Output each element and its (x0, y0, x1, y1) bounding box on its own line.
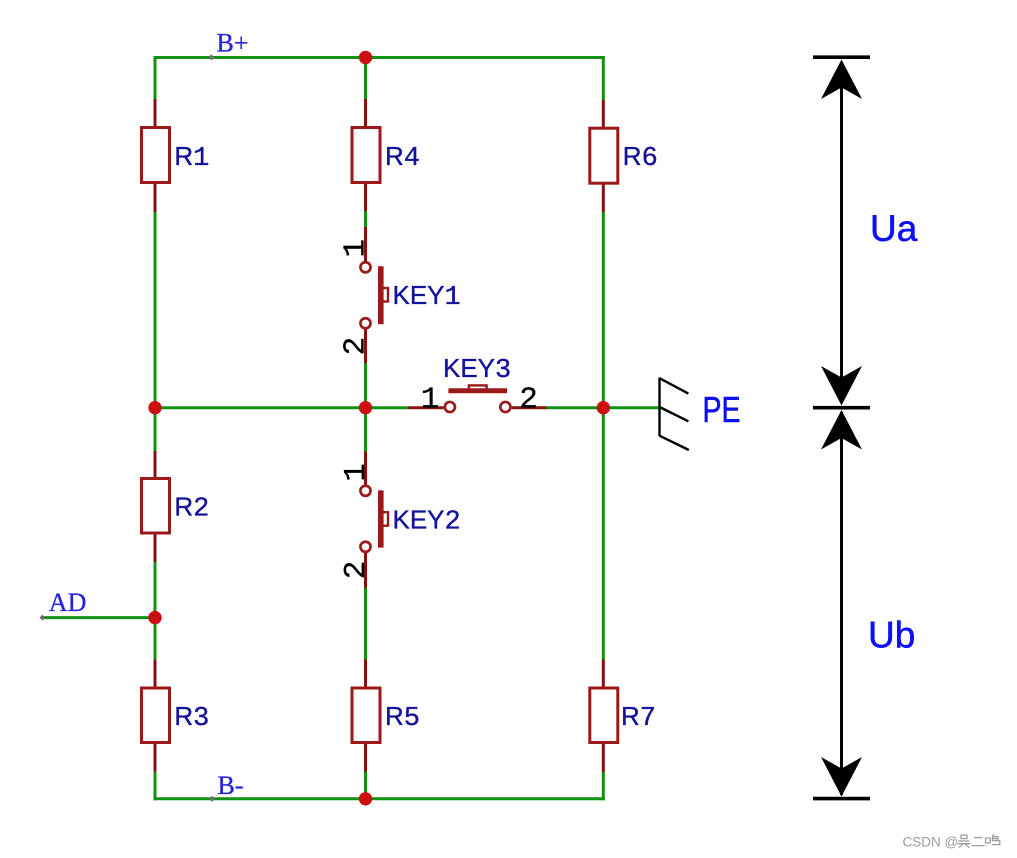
wire middle branch R4 to KEY1 (364, 211, 367, 228)
resistor R6 (590, 100, 618, 212)
net label AD anchor (40, 615, 46, 621)
svg-text:1: 1 (421, 383, 440, 418)
resistor R7 (590, 660, 618, 773)
wire PE stub (603, 406, 659, 409)
wire middle row KEY3 to right junction (547, 406, 604, 409)
svg-text:1: 1 (339, 463, 374, 482)
svg-text:CSDN @: CSDN @ (903, 835, 959, 850)
resistor R2 (142, 451, 170, 562)
svg-text:Ub: Ub (868, 614, 915, 655)
wire middle branch middle junction to KEY2 (364, 408, 367, 452)
wire right branch R7 to bottom (602, 772, 605, 801)
svg-text:PE: PE (703, 389, 741, 430)
wire middle branch KEY1 to middle junction (364, 363, 367, 408)
pushbutton KEY2 (360, 452, 388, 588)
wire left branch top (154, 56, 157, 100)
svg-text:AD: AD (49, 588, 87, 617)
resistor R1 (142, 99, 170, 212)
resistor R5 (352, 660, 380, 772)
svg-text:R7: R7 (621, 701, 656, 734)
svg-text:R1: R1 (174, 141, 209, 174)
wire left branch AD to R3 (154, 618, 157, 660)
pushbutton KEY1 (360, 227, 388, 363)
wire B- bottom horizontal (154, 797, 605, 800)
svg-text:B-: B- (218, 771, 244, 800)
wire left branch middle to R2 (154, 408, 157, 452)
net label B+ anchor (208, 54, 214, 60)
net label B- anchor (209, 796, 215, 802)
wire middle row left junction to KEY3 (366, 406, 409, 409)
svg-text:KEY2: KEY2 (393, 504, 461, 537)
pushbutton KEY3 (409, 385, 547, 412)
junction bottom at R5 (359, 792, 372, 805)
junction AD (148, 611, 161, 624)
svg-text:R4: R4 (385, 141, 420, 174)
svg-text:R2: R2 (174, 491, 209, 524)
wire left branch R2 to AD (154, 562, 157, 618)
resistor R4 (352, 99, 380, 211)
svg-text:2: 2 (339, 561, 374, 580)
svg-text:1: 1 (339, 239, 374, 258)
svg-text:KEY3: KEY3 (443, 353, 511, 386)
junction middle center (359, 401, 372, 414)
junction top at R4 (359, 51, 372, 64)
dimension arrow Ua (813, 57, 870, 405)
wire right branch top (602, 56, 605, 100)
svg-text:R5: R5 (385, 701, 420, 734)
wire middle branch top junction to R4 (364, 58, 367, 100)
svg-text:Ua: Ua (870, 208, 918, 249)
svg-text:B+: B+ (217, 28, 249, 57)
resistor R3 (142, 660, 170, 772)
junction middle left (148, 401, 161, 414)
dimension arrow Ub (813, 408, 870, 799)
wire B+ top horizontal (154, 56, 605, 59)
wire AD horizontal (43, 616, 156, 619)
wire middle branch R5 to bottom junction (364, 771, 367, 799)
svg-text:2: 2 (339, 337, 374, 356)
wire left branch R3 to bottom (154, 771, 157, 800)
junction middle right (597, 401, 610, 414)
wire left branch R1 to middle (154, 212, 157, 408)
wire middle branch KEY2 to R5 (364, 588, 367, 660)
svg-text:KEY1: KEY1 (393, 280, 461, 313)
svg-text:R6: R6 (623, 141, 658, 174)
svg-text:R3: R3 (174, 701, 209, 734)
wire right branch R6 to middle junction (602, 212, 605, 408)
wire middle row left segment (155, 406, 366, 409)
svg-text:2: 2 (519, 383, 538, 418)
wire right branch middle junction to R7 (602, 408, 605, 660)
ground PE symbol (660, 378, 689, 451)
